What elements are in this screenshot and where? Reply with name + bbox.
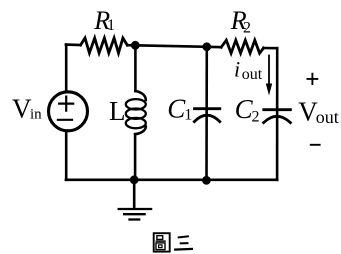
svg-text:1: 1 <box>184 107 192 124</box>
resistor R1 <box>81 38 128 53</box>
svg-text:i: i <box>234 57 240 82</box>
junction node A dot <box>131 41 140 50</box>
capacitor C2 curved plate <box>264 116 291 122</box>
svg-text:V: V <box>12 94 32 124</box>
junction ground-left dot <box>130 175 139 184</box>
ground stub wire <box>133 180 136 208</box>
V_in plus sign <box>59 97 73 111</box>
svg-text:L: L <box>109 96 126 126</box>
wire inductor branch upper <box>134 45 137 91</box>
wire R1 to node A <box>127 44 135 47</box>
capacitor C2 top plate <box>264 108 291 111</box>
wire node B to R2 <box>207 45 221 48</box>
svg-text:out: out <box>316 107 339 127</box>
wire left branch upper vertical <box>65 45 68 91</box>
wire R2 to top-right corner <box>264 47 278 50</box>
svg-text:2: 2 <box>252 109 260 126</box>
caption glyph 圖 <box>154 233 170 251</box>
V_in minus sign <box>58 119 72 121</box>
caption glyph 三 <box>174 236 193 249</box>
svg-text:in: in <box>30 107 42 123</box>
junction ground-right dot <box>202 176 211 185</box>
wire bottom horizontal <box>66 179 277 182</box>
wire right branch vertical (R2 to C2 to bottom corner) <box>276 48 279 180</box>
capacitor C1 curved plate <box>194 115 220 121</box>
capacitor C1 top plate <box>195 107 220 110</box>
wire C1 branch vertical <box>205 47 208 181</box>
V_out minus sign <box>310 144 321 146</box>
ground symbol bar 2 <box>124 213 145 215</box>
svg-text:out: out <box>242 66 263 83</box>
inductor L coil <box>135 91 145 100</box>
current arrow i_out <box>268 56 270 86</box>
svg-text:2: 2 <box>243 19 251 36</box>
wire top-left horizontal (corner to R1) <box>66 43 81 46</box>
current arrow i_out head <box>266 84 272 96</box>
ground symbol bar 3 <box>130 218 140 220</box>
resistor R2 <box>221 40 263 53</box>
wire node A to node B <box>135 45 207 47</box>
voltage source V_in circle <box>49 92 88 131</box>
ground symbol bar 1 <box>119 208 151 210</box>
V_out plus sign <box>307 73 319 85</box>
wire left branch lower vertical <box>65 132 68 180</box>
svg-text:1: 1 <box>107 17 115 34</box>
wire inductor branch lower <box>134 134 137 180</box>
junction node B dot <box>202 42 211 51</box>
